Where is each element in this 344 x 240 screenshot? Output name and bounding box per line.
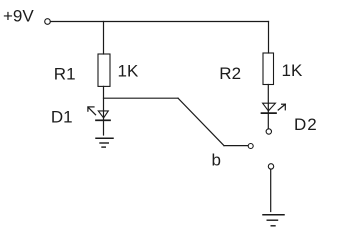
svg-text:R2: R2	[219, 64, 241, 83]
svg-text:D2: D2	[294, 115, 318, 134]
svg-text:+9V: +9V	[3, 7, 34, 26]
svg-text:1K: 1K	[282, 61, 303, 80]
svg-text:b: b	[212, 151, 221, 170]
svg-text:1K: 1K	[118, 62, 139, 81]
svg-text:D1: D1	[51, 108, 73, 127]
svg-text:R1: R1	[54, 65, 76, 84]
